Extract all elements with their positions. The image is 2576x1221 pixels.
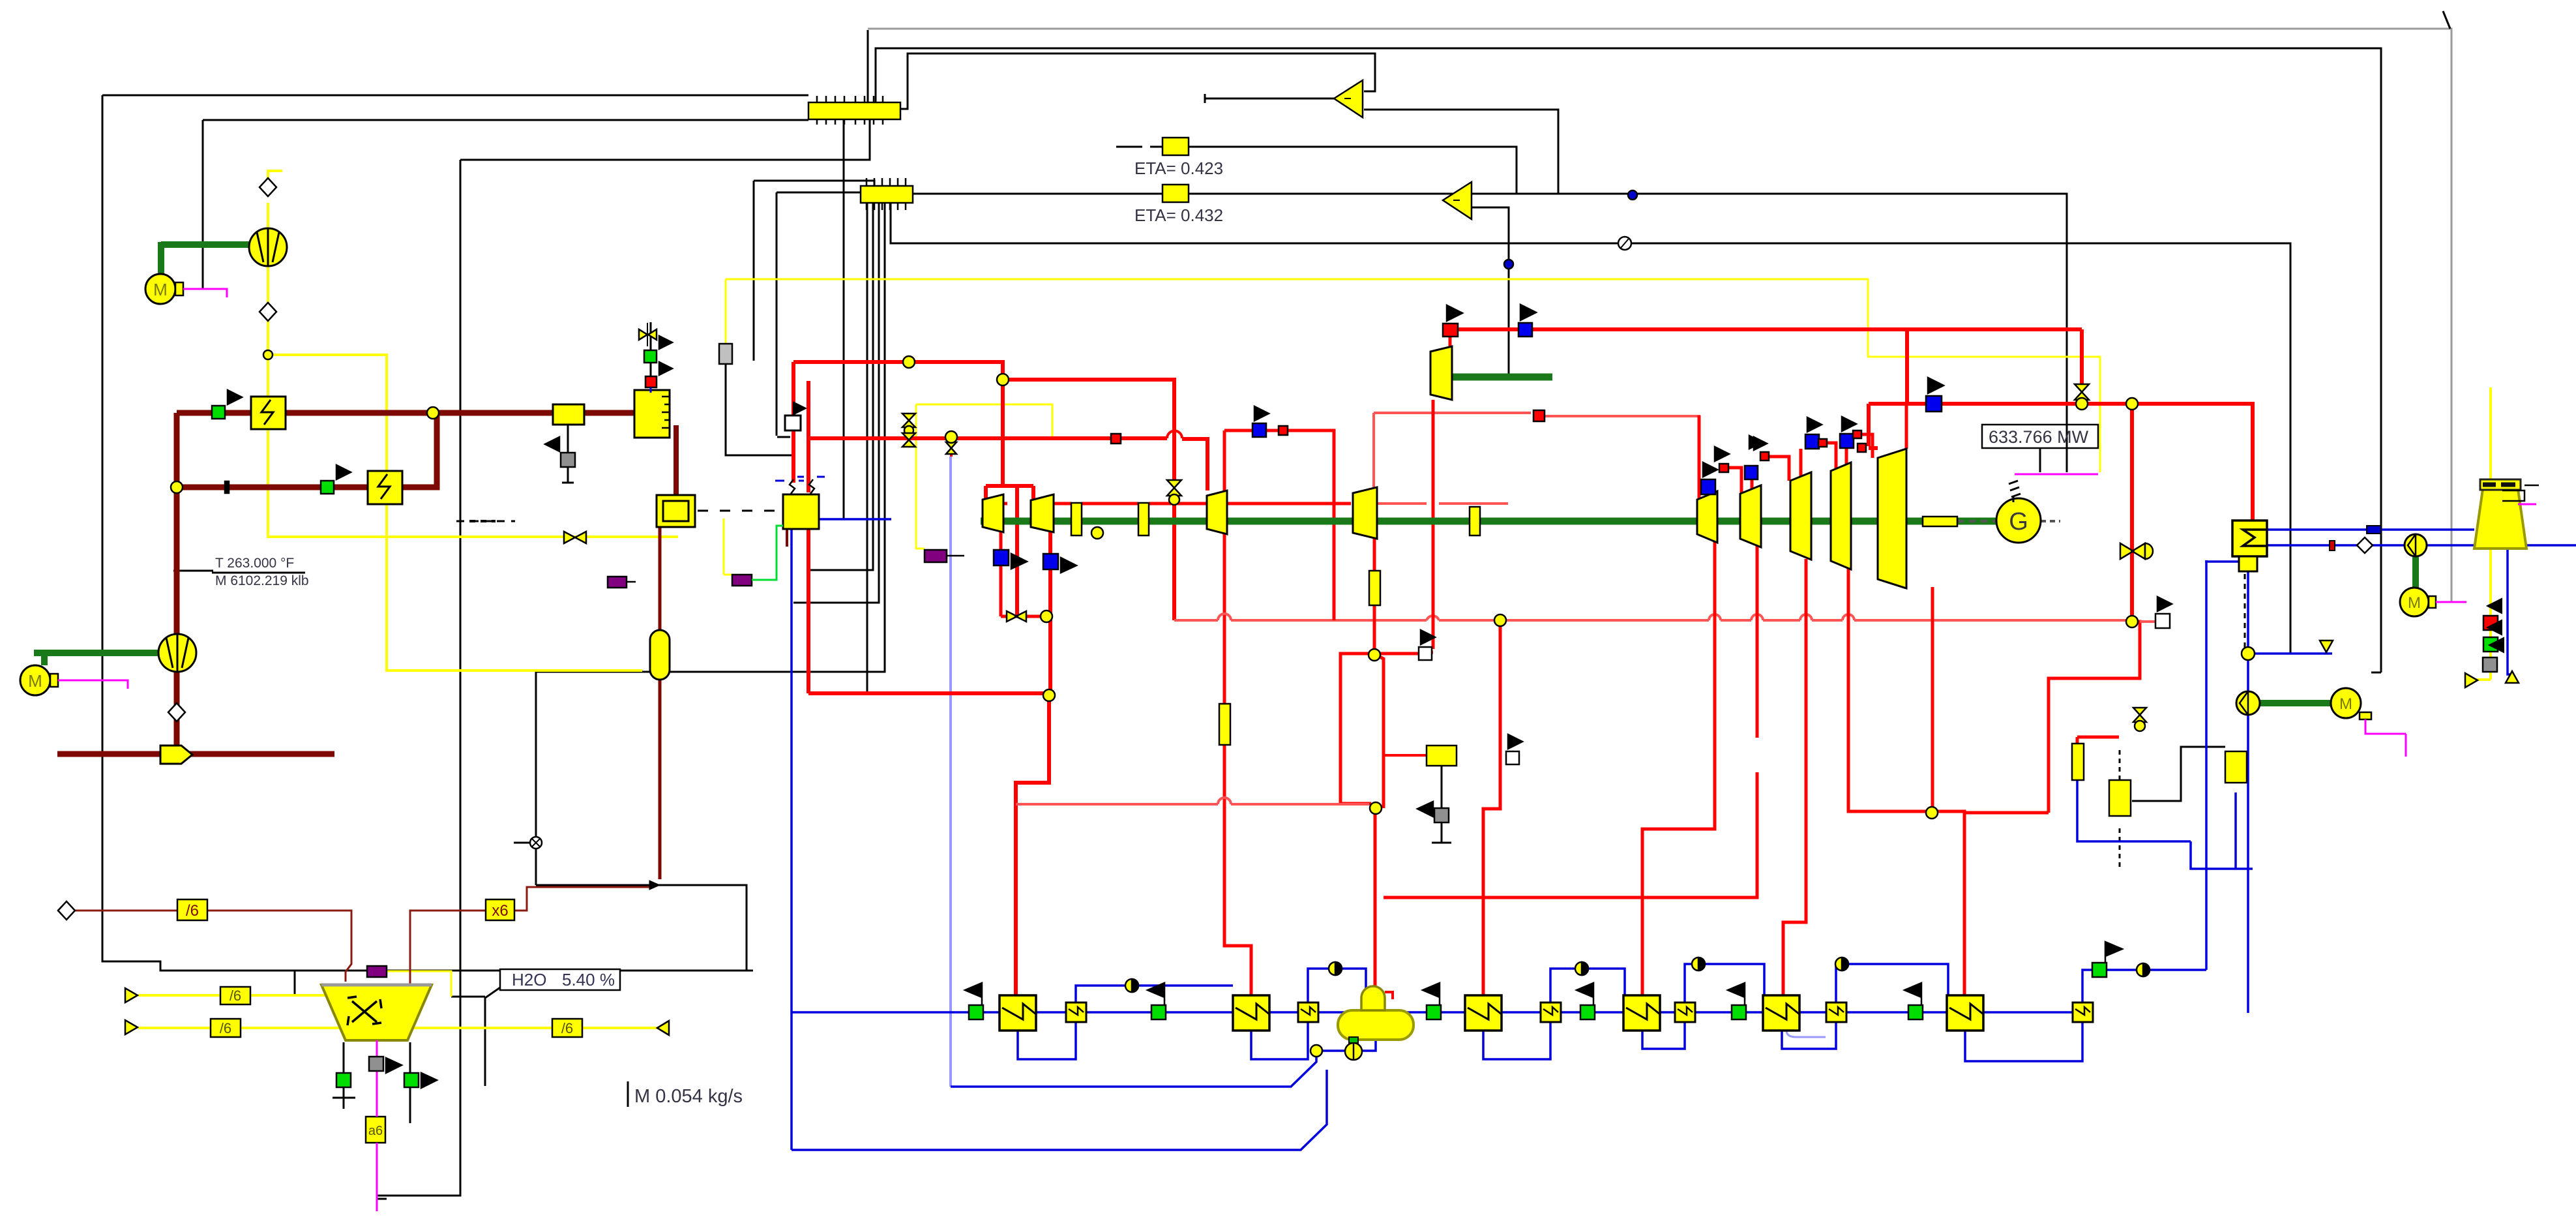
svg-text:x6: x6	[492, 902, 508, 920]
h2o pointer	[485, 986, 502, 1086]
red y672 valve stub node	[950, 438, 953, 457]
svg-text:G: G	[2009, 508, 2028, 535]
svg-text:/6: /6	[561, 1020, 573, 1036]
red light line y1233	[1016, 804, 1380, 806]
deaerator tank	[1338, 1010, 1414, 1040]
red main steam header	[793, 362, 1033, 616]
lp4 blue sq	[1840, 434, 1854, 448]
green cw pump drive	[2412, 556, 2419, 590]
H2O label box	[500, 969, 620, 990]
deaerator gray flag	[1417, 802, 1433, 817]
deaerator yellow ctrl box	[1427, 746, 1457, 766]
red t2a exhaust down	[1048, 532, 1052, 693]
blue heater chain main line	[792, 1011, 2092, 1014]
svg-text:/6: /6	[229, 987, 241, 1004]
eta2 line to triangle2	[1116, 193, 1443, 195]
green sq final	[2092, 963, 2107, 977]
red line y1063	[808, 691, 1049, 695]
heater 4	[1623, 995, 1660, 1031]
fan1	[249, 228, 287, 266]
turbine T4	[1353, 487, 1377, 539]
mill top-left drop	[294, 971, 296, 995]
yellow to gray box	[725, 279, 727, 344]
deaerator dome	[1361, 986, 1385, 1010]
eta box 1	[1162, 138, 1189, 155]
svg-text:/6: /6	[186, 902, 199, 920]
turbine LP4	[1831, 462, 1851, 569]
y657 blue sq	[1252, 423, 1266, 437]
mill green square 2	[404, 1073, 419, 1087]
bar1 bottom tick line	[843, 118, 845, 519]
green fan1 drive	[161, 242, 250, 274]
boiler green sq	[644, 350, 657, 363]
red valve down line to cold reheat	[1172, 501, 1176, 620]
red crossover bump at 1801	[1167, 431, 1182, 439]
blue condenser cooling line 2	[2267, 544, 2576, 547]
red t1 exhaust	[996, 504, 1351, 616]
cooling tower	[2474, 489, 2526, 549]
svg-text:M 6102.219 klb: M 6102.219 klb	[215, 573, 309, 588]
arrow into mill line	[649, 881, 660, 890]
dashed link left of box A	[456, 520, 515, 522]
mill green square 1	[336, 1073, 351, 1087]
fwpt line blue sq	[1518, 323, 1532, 337]
motor M2	[20, 665, 50, 695]
green sq stage2	[1151, 1005, 1166, 1019]
svg-text:T 263.000 °F: T 263.000 °F	[215, 556, 294, 571]
boiler safety valve symbol	[639, 329, 657, 340]
triangle2 out lower down	[1472, 207, 1509, 279]
green condensate pump drive	[2260, 700, 2331, 706]
lavender condensate main vertical	[949, 457, 952, 1087]
red deaerator dome stub	[1385, 992, 1393, 999]
restrictor capsule t2b exhaust	[1219, 704, 1230, 745]
red deaerator yellow box stub	[1384, 754, 1427, 757]
turbine LP5	[1878, 449, 1906, 588]
white sq y1004	[1419, 647, 1432, 660]
condenser	[2232, 520, 2267, 556]
green sq flue line1	[212, 406, 225, 419]
bar2 down line 1	[810, 202, 873, 570]
blue risers from condenser	[2205, 560, 2208, 970]
otimes symbol x822	[530, 837, 542, 849]
yellow above cooling tower	[2489, 387, 2492, 680]
turbine LP1	[1697, 491, 1717, 543]
/6 box 1	[177, 899, 207, 920]
condensate throttle valve	[2120, 543, 2145, 559]
boiler top stack line	[650, 322, 652, 378]
green fan2 drive	[34, 653, 159, 665]
tower yellow triangles	[2465, 673, 2478, 687]
maroon thin recirculation lines	[57, 881, 660, 985]
economizer box A double frame	[657, 495, 695, 527]
condenser dashed	[2244, 574, 2246, 652]
bus bar1 top riser to gray line	[867, 30, 869, 102]
signal line from fan motor area	[203, 120, 808, 288]
green fwpt shaft	[1430, 374, 1552, 381]
purple box A	[732, 575, 752, 586]
cw pump	[2405, 534, 2427, 556]
mill hammer icon	[348, 997, 381, 1025]
lp3 red sq	[1818, 439, 1827, 447]
bar2 output line right long	[913, 194, 2067, 472]
hotwell	[2239, 556, 2257, 571]
blue stage2 jumper	[1308, 969, 1366, 1002]
y657 red sq	[1279, 426, 1288, 435]
frame left border line	[102, 95, 753, 971]
drain cooler 5	[1826, 1002, 1846, 1022]
triangle2 out upper	[1472, 193, 1517, 195]
red ip exhaust up crossover	[1374, 413, 1699, 504]
generator magenta line	[2015, 474, 2098, 475]
green sq flue line2	[321, 481, 334, 494]
red lp1 crossunder	[1642, 540, 1715, 995]
turbine T1 HP	[983, 494, 1003, 532]
red tick on cw line2	[2330, 541, 2335, 550]
svg-text:ETA= 0.432: ETA= 0.432	[1134, 205, 1223, 225]
cw motor M	[2400, 588, 2429, 616]
drain cooler 3	[1541, 1002, 1561, 1022]
HX2 airheater	[368, 471, 402, 504]
red main steam riser 1	[792, 362, 795, 483]
turbine T2B IP	[1207, 490, 1227, 534]
bus bar 1	[808, 96, 900, 125]
fwpt line red sq	[1443, 324, 1458, 337]
coal line 2	[138, 1027, 659, 1029]
/6 box 4	[552, 1019, 582, 1037]
red deaerator steam line	[1340, 654, 1375, 993]
blue dot y299	[1628, 190, 1637, 200]
red heater3 feed from node	[1483, 620, 1500, 995]
blue stage3 jumper	[1550, 969, 1625, 1002]
blue stage5 jumper	[1836, 964, 1948, 1002]
desup yellow box 2	[2225, 751, 2247, 783]
coal line 1	[138, 994, 330, 997]
blue bottom return line	[792, 1070, 1327, 1150]
yellow fan1 line down through HX1	[268, 203, 678, 537]
heater 5	[1763, 995, 1799, 1031]
svg-text:H2O: H2O	[512, 970, 546, 989]
turbine T2A	[1031, 494, 1054, 532]
lp2 blue sq	[1745, 466, 1758, 479]
blue deaerator down pipe	[1316, 1040, 1376, 1051]
red lp4 crossunder	[1848, 569, 1964, 995]
mill inlet triangle 1	[125, 988, 138, 1002]
red t2b area line with squares	[1224, 430, 1334, 620]
h2o yellow-link horizontal	[451, 996, 485, 998]
red fwpt inlet stub	[1449, 336, 1452, 346]
red ip exhaust junction down	[1373, 539, 1376, 654]
lp1 red sq	[1719, 464, 1728, 472]
coupling long bar	[1923, 517, 1957, 526]
maroon economizer down line	[659, 527, 662, 879]
red condenser bypass down	[2130, 404, 2134, 622]
svg-text:M: M	[2408, 594, 2421, 612]
maroon second line	[177, 413, 437, 487]
coupling 2	[1138, 503, 1149, 535]
green main shaft	[981, 518, 1997, 525]
red heater6 cascade top	[1964, 811, 2049, 815]
coupling 3	[1470, 507, 1480, 535]
deaerator node	[1310, 1045, 1322, 1057]
maroon bottom line	[57, 751, 334, 757]
yellow long signal to generator area	[726, 279, 2100, 472]
gray box on yellow signal	[719, 344, 732, 364]
t1 drain valve	[1007, 611, 1026, 622]
lavender heater4 stub	[1786, 1031, 1826, 1037]
svg-text:M 0.054 kg/s: M 0.054 kg/s	[634, 1086, 743, 1107]
green sq stage3	[1427, 1005, 1441, 1019]
double valve at 1394	[902, 414, 915, 427]
svg-text:M: M	[153, 280, 168, 299]
turbine LP3	[1790, 472, 1811, 560]
blue stage3 underloop	[1483, 1022, 1550, 1059]
gray box link black line	[726, 364, 792, 455]
black x822 vertical with mill line	[514, 672, 536, 885]
blue condensate main riser	[790, 529, 793, 1150]
condensate motor magenta	[2365, 719, 2406, 757]
red reheat line y672	[808, 438, 1207, 490]
mill yellow valve	[564, 532, 586, 543]
yellow to purple box A	[724, 519, 732, 575]
blue stage6 upper line	[2082, 970, 2206, 1002]
blue cooling tower down line	[2508, 549, 2514, 674]
maroon mill feed line 1	[57, 911, 351, 982]
lime signal path	[752, 526, 783, 580]
restrictor capsule t4 exhaust	[1369, 571, 1380, 605]
heater 3	[1465, 995, 1502, 1031]
svg-text:a6: a6	[368, 1124, 383, 1138]
blue desuperheater line	[2077, 780, 2253, 869]
purple box B	[925, 550, 964, 562]
signal line bar2 left input	[777, 192, 862, 437]
black y1357 mill line	[536, 885, 747, 971]
deaerator pump	[1345, 1043, 1362, 1060]
svg-text:ETA= 0.423: ETA= 0.423	[1134, 158, 1223, 178]
generator excitation ticks	[2009, 481, 2021, 502]
heater green sq flags	[965, 983, 982, 1005]
lp bypass valve at 3193	[2075, 384, 2089, 400]
blue dot triangle2 drop	[1504, 260, 1513, 269]
magenta end link bottom	[377, 1198, 387, 1200]
desup yellow box 1	[2109, 780, 2131, 816]
small valve below node 1459	[946, 442, 956, 454]
blue node line to triangle	[2248, 652, 2332, 655]
yellow branch from node to economizer	[268, 355, 642, 671]
desup box1 dashed	[2119, 750, 2121, 869]
red deaerator jog	[1374, 654, 1384, 808]
red heater1 feed	[1016, 693, 1049, 995]
x6 box	[486, 899, 514, 920]
red reheat bumps	[1218, 614, 1854, 620]
white sq right of deaerator box	[1506, 751, 1519, 764]
condensate motor M	[2331, 688, 2361, 718]
/6 box 2	[220, 987, 250, 1004]
inner rect vertical line	[377, 160, 460, 1196]
triangle1 output to junction	[1364, 110, 1558, 194]
t1 blue sq	[994, 550, 1009, 565]
desup box2 link	[2132, 747, 2225, 801]
bar2 down line 3	[536, 202, 885, 672]
blue condenser left hotwell link	[2206, 560, 2239, 562]
jumper circles	[1125, 957, 2150, 992]
lp4 red sq	[1853, 430, 1861, 438]
magenta mill outlet	[376, 1040, 378, 1211]
turbine LP2	[1740, 485, 1761, 547]
accumulator capsule	[650, 630, 670, 680]
motor M1	[145, 274, 175, 304]
svg-text:M: M	[28, 671, 42, 691]
desuperheater capsule	[2072, 744, 2084, 780]
red white sq line at 1004	[1374, 400, 1433, 654]
mill gray square	[369, 1057, 383, 1071]
red desuperheater feed	[2077, 737, 2119, 746]
lp2 red sq	[1760, 452, 1769, 460]
boiler red sq	[645, 376, 657, 387]
gray sq under small box	[561, 453, 575, 467]
heater 2	[1233, 995, 1269, 1031]
magenta M2 line	[58, 680, 128, 689]
red lp exhaust main to condenser	[1869, 329, 2253, 520]
maroon boiler downcomer	[674, 425, 679, 495]
blue stage5 underloop	[1782, 1022, 1836, 1049]
purple box A2	[608, 577, 627, 588]
blue stage4 underloop	[1642, 1022, 1685, 1049]
eta box 2	[1162, 185, 1189, 202]
fan2	[158, 634, 196, 672]
steam generator box B	[783, 494, 819, 529]
drain cooler 4	[1675, 1002, 1695, 1022]
triangle fn 1	[1334, 80, 1363, 117]
steam symbol 2 on box B	[809, 479, 814, 494]
blue stage2 underloop	[1251, 1022, 1308, 1059]
signal line y277 to bus bar 2	[754, 181, 874, 361]
yellow top stub above fan1	[268, 171, 282, 187]
bus bar1 second riser	[876, 48, 2381, 672]
red hot reheat long top line	[1458, 327, 2082, 331]
condensate pump	[2236, 691, 2260, 715]
tower marker squares stack: red green gray	[2483, 616, 2498, 630]
y619 blue sq	[1926, 396, 1942, 412]
deaerator yellow box link	[1432, 766, 1451, 843]
steam symbol 1 on box B	[790, 479, 795, 494]
red header second branch	[1003, 380, 1174, 480]
green sq stage6	[1908, 1005, 1923, 1019]
blue from box B right	[819, 518, 891, 520]
maroon mill feed line 2	[410, 887, 649, 985]
gray frame line top	[868, 11, 2451, 601]
lp1 blue sq	[1701, 479, 1715, 494]
red boiler vertical through box B	[807, 381, 810, 693]
dashed link economizer to boilerbox	[698, 510, 780, 512]
a6 box	[366, 1117, 385, 1143]
red lp3 crossunder	[1783, 559, 1806, 995]
boiler small box lower link	[562, 424, 574, 483]
inner rect top line	[460, 118, 870, 160]
deaerator gray square	[1434, 808, 1449, 822]
T label underline	[212, 572, 305, 574]
green sq stage4	[1580, 1005, 1595, 1019]
red lp supply line	[1699, 404, 1906, 500]
blue stage4 jumper	[1685, 964, 1764, 1002]
yellow cooling tower bottom cluster	[2474, 678, 2491, 681]
yellow gamma line mid	[916, 404, 1052, 549]
mill purple box	[367, 966, 387, 977]
triangle1 left line	[1205, 94, 1334, 103]
turbine FWPT	[1430, 346, 1452, 400]
/6 box 3	[211, 1019, 241, 1037]
oslash symbol y373	[1618, 237, 1631, 250]
red fwpt line to valve	[2080, 329, 2084, 384]
svg-text:633.766 MW: 633.766 MW	[1989, 427, 2089, 447]
svg-text:/6: /6	[220, 1020, 231, 1036]
shaft couplings	[1071, 503, 1957, 535]
bar2 down line 2	[793, 202, 879, 693]
mill inlet triangle 2	[125, 1020, 138, 1034]
drain cooler 2	[1298, 1002, 1318, 1022]
red reheat spray line	[1932, 620, 2162, 622]
green sq stage5	[1732, 1005, 1746, 1019]
eta1 line	[1116, 147, 1517, 194]
t2a blue sq	[1043, 554, 1058, 569]
maroon left vertical	[174, 413, 180, 746]
bus bar1 right output up	[900, 53, 1375, 109]
tick on flue line2	[225, 481, 229, 493]
svg-text:M: M	[2339, 695, 2352, 713]
bar2 down line 4 to y373	[891, 202, 2290, 654]
junction pentagon bottom	[160, 746, 192, 764]
heater 6	[1947, 995, 1983, 1031]
magenta M1 line	[183, 289, 227, 297]
red cold reheat line light	[1174, 619, 1932, 622]
boiler with level scale	[634, 390, 670, 438]
blue stage6 underloop	[1965, 1022, 2082, 1061]
blue rect on cw line1	[2367, 526, 2381, 534]
coupling dashes	[1957, 520, 1997, 522]
blue condenser cooling line 1	[2267, 528, 2474, 531]
red cascade from node	[2049, 622, 2140, 813]
blue stage1 jumper	[1076, 986, 1233, 1002]
HX1 airheater	[251, 397, 286, 429]
white sq near node 3270	[2155, 614, 2170, 628]
triangle fn 2	[1443, 182, 1472, 219]
white diamond on cw line	[2357, 537, 2373, 553]
maroon under box B stub	[786, 529, 788, 547]
lp3 blue sq	[1805, 434, 1819, 449]
green sq stage1	[969, 1005, 983, 1019]
blue stage1 underloop	[1018, 1022, 1076, 1059]
red lp5 crossunder	[1931, 587, 1934, 813]
drain cooler 1	[1066, 1002, 1086, 1022]
generator G	[1996, 474, 2098, 543]
frame top line	[102, 95, 808, 97]
cascade valve	[2133, 708, 2146, 722]
blue node and triangle near hotwell line	[2242, 647, 2255, 660]
reheat valve at 1801	[1167, 480, 1181, 496]
coupling 1	[1071, 503, 1082, 535]
tower top right box	[2502, 490, 2524, 501]
triangle2 line to shaft of fwpt	[1508, 279, 1510, 374]
tower magenta stub	[2518, 504, 2536, 505]
mill body	[321, 985, 432, 1040]
mw box pointer	[2039, 448, 2041, 472]
maroon top line	[177, 410, 634, 416]
mill flag on gray	[386, 1058, 402, 1073]
cw motor magenta	[2436, 601, 2466, 603]
white square flag left of box B	[785, 401, 807, 430]
heater 1	[999, 995, 1036, 1031]
y672 red sq	[1111, 434, 1121, 444]
